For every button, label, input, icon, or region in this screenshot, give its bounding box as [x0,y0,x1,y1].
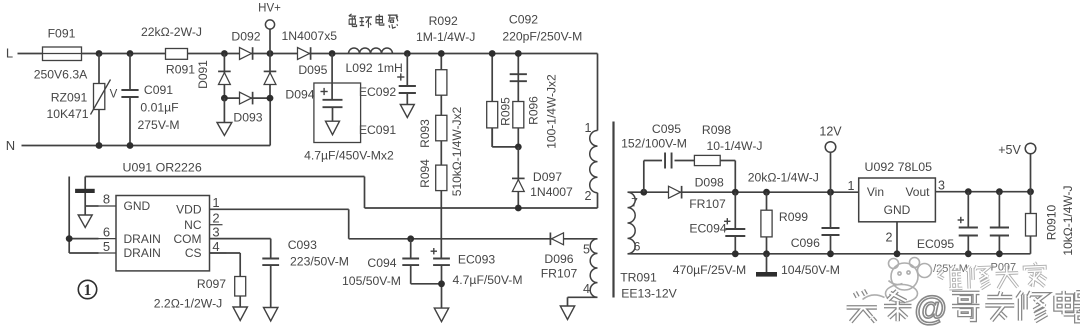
svg-text:GND: GND [884,203,911,217]
svg-text:4: 4 [212,239,219,254]
wire pin8 to ground stem [85,205,98,207]
svg-text:152/100V-M: 152/100V-M [621,137,687,151]
svg-text:275V-M: 275V-M [137,118,179,132]
node junction rail/C096 [827,250,834,257]
wire drain bus vertical [69,177,98,254]
watermark weixiudajia [938,262,1047,291]
label R097 [197,277,226,291]
wire pin1 VDD net [210,209,598,239]
resistor R097 [235,277,246,297]
svg-text:104/50V-M: 104/50V-M [781,263,840,277]
node junction rail/C092 [515,50,522,57]
inductor L092 1mH [349,48,393,54]
ground primary bus bar (thick) [75,189,95,193]
pin number 5 (TR091) [583,242,590,256]
value 10kOhm-1/4W-J (R0910) [1061,185,1075,255]
svg-text:C094: C094 [367,256,396,270]
value 1M-1/4W-J [416,30,475,44]
label D098 [695,175,724,189]
pin COM text [174,232,202,246]
node junction out/R0910 [1027,188,1034,195]
wire secondary 12V line [628,191,859,193]
label 1mH [377,61,403,75]
pin GND text [124,199,151,213]
svg-text:3: 3 [938,178,945,192]
capacitor C096 [822,192,840,254]
node junction pin7/C095 [640,189,647,196]
terminal HV+ [265,20,274,54]
value 1N4007 [530,185,573,199]
node junction rail/EC092 [404,50,411,57]
node junction drain pins [66,235,73,242]
label sehuandiangan (color-ring inductor) [349,14,398,28]
capacitor EC094 [724,192,745,254]
label EC093 [458,253,495,267]
diode D091 [218,54,231,99]
transformer core [612,122,614,298]
node junction D091/D093/ground [221,95,228,102]
label TR091 [620,270,657,284]
value 223/50V-M [290,255,349,269]
pin number 1 [210,195,227,210]
ground TR091 pin4 [560,306,574,320]
svg-text:20kΩ-1/4W-J: 20kΩ-1/4W-J [748,171,819,185]
resistor R099 [761,192,772,254]
value 4.7uF/50V-M [452,273,522,287]
ground primary (bridge) [217,98,232,135]
transformer TR091 secondary winding 7-6 [628,192,636,254]
svg-text:6: 6 [634,239,641,253]
svg-text:U092 78L05: U092 78L05 [865,160,933,174]
svg-text:4: 4 [583,282,590,296]
wire secondary ground rail [628,253,1031,255]
label D094 [285,87,314,101]
svg-text:EC092: EC092 [359,85,396,99]
wire 5V output line [935,191,1030,193]
label D096 [544,252,573,266]
value 105/50V-M [342,274,401,288]
pin Vout text [905,185,930,199]
svg-text:1: 1 [212,195,219,210]
node junction VDD/C094 [407,235,414,242]
watermark toutiao handle [847,290,1080,327]
svg-text:D097: D097 [533,170,562,184]
svg-text:R0910: R0910 [1045,205,1059,241]
label C095 [652,122,681,136]
svg-text:DRAIN: DRAIN [124,232,161,246]
wire pin2 NC stub [210,224,223,226]
capacitor C094 [402,239,419,284]
node junction rail/EC091 [329,50,336,57]
resistor R092 1M [436,70,447,96]
svg-text:R097: R097 [197,277,226,291]
label EC091 [359,123,396,137]
svg-text:EC093: EC093 [458,253,495,267]
label C094 [367,256,396,270]
value 250V6.3A [34,67,88,81]
fuse F091 [43,47,82,61]
svg-text:0.01µF: 0.01µF [140,101,178,115]
svg-text:EE13-12V: EE13-12V [621,286,677,300]
node junction rail/EC095 [965,250,972,257]
pin DRAIN5 text [124,246,161,260]
resistor R095 [487,54,498,147]
svg-text:COM: COM [174,232,202,246]
node junction R098/EC094 [732,189,739,196]
svg-text:R099: R099 [779,210,808,224]
node junction drain-line/D097 [515,205,522,212]
svg-text:NC: NC [184,218,202,232]
svg-text:R094: R094 [418,159,432,188]
wire top rail (L line) [18,53,598,55]
svg-text:220pF/250V-M: 220pF/250V-M [502,30,582,44]
pin number 6 [99,225,117,240]
wire pin4 CS to R097 [210,253,241,277]
node junction ground join [438,280,445,287]
svg-text:GND: GND [124,199,151,213]
svg-text:2: 2 [886,230,893,244]
capacitor C097 [990,192,1009,254]
node junction top rail / RZ091 [96,50,103,57]
svg-text:FR107: FR107 [541,266,578,280]
svg-text:@: @ [915,290,947,327]
label R095 [499,97,513,126]
svg-text:+5V: +5V [998,143,1021,157]
pin number 3 [210,225,227,240]
label C093 [288,238,317,252]
value 100-1/4W-Jx2 [545,74,559,149]
node junction line/12V [827,189,834,196]
diode D097 [512,147,525,208]
resistor R098 [694,155,720,165]
label EC095 [917,237,954,251]
wire startup chain [440,54,442,259]
pin number 8 [99,192,117,207]
terminal +5V [1025,143,1036,192]
label R093 [418,119,432,148]
node junction rail/R092 [438,50,445,57]
pin GND text (U092) [884,203,911,217]
svg-text:1: 1 [84,282,92,299]
label EC094 [689,221,726,235]
label R096 [527,96,541,125]
resistor R096 [513,102,524,128]
label R092 [429,14,458,28]
svg-text:V: V [110,89,118,101]
label EC092 [359,85,396,99]
svg-text:1: 1 [585,121,592,135]
label R091 [166,62,195,76]
svg-text:C093: C093 [288,238,317,252]
ground R097 [233,307,247,321]
pin number 2 [212,211,219,226]
node L (mains live input label) [6,46,13,61]
pin number 1 (TR091) [585,121,592,135]
svg-text:L: L [6,46,13,61]
svg-text:D093: D093 [233,110,262,124]
svg-text:D092: D092 [231,29,260,43]
ground EC093 [434,308,448,322]
svg-text:HV+: HV+ [258,3,281,15]
label R098 [702,123,731,137]
pin number 5 [99,239,117,254]
value 104/50V-M [781,263,840,277]
pin number 3 (U092) [938,178,945,192]
svg-text:D091: D091 [196,60,210,89]
node junction snubber/D097 [515,144,522,151]
capacitor EC095 [958,192,978,254]
svg-text:DRAIN: DRAIN [124,246,161,260]
pin CS text [185,246,202,260]
pin number 4 (TR091) [583,282,590,296]
capacitor EC092 [397,54,416,118]
value 510kOhm-1/4W-Jx2 [450,106,464,196]
transformer TR091 winding 5-4 [590,239,597,297]
svg-text:EC094: EC094 [689,221,726,235]
node junction out/EC095 [965,188,972,195]
svg-text:5: 5 [583,242,590,256]
capacitor C095 [665,153,672,169]
svg-text:1N4007: 1N4007 [530,185,573,199]
svg-text:D095: D095 [298,63,327,77]
label D092 [231,29,260,43]
op-amp U091 OR2226 (switcher IC box) [116,196,210,271]
capacitor C093 [262,259,279,308]
label C096 [791,236,820,250]
svg-text:10kΩ-1/4W-J: 10kΩ-1/4W-J [1061,185,1075,255]
svg-text:R091: R091 [166,62,195,76]
pin number 6 (TR091) [634,239,641,253]
value 2.2Ohm-1/2W-J [154,296,223,310]
value 152/100V-M [621,137,687,151]
wire C095-R098 snubber branch [644,161,736,193]
svg-text:Vout: Vout [905,185,930,199]
label +5V [998,143,1021,157]
pin NC text [184,218,202,232]
svg-text:EC091: EC091 [359,123,396,137]
label U091 OR2226 [123,160,202,174]
value 220pF/250V-M [502,30,582,44]
svg-text:R098: R098 [702,123,731,137]
wire drain net to transformer pin2 [85,177,597,209]
svg-text:6: 6 [103,225,110,240]
label 1N4007x5 [282,29,338,43]
wire snubber bottom join [492,128,518,147]
svg-text:5: 5 [103,239,110,254]
svg-text:12V: 12V [819,124,842,138]
pin DRAIN6 text [124,232,161,246]
resistor R094 [436,165,447,191]
capacitor EC093 [431,248,450,284]
label RZ091 [51,90,88,104]
svg-text:D098: D098 [695,175,724,189]
svg-text:F091: F091 [48,26,76,40]
ground secondary (bar) [756,254,777,277]
transformer TR091 primary winding 1-2 [590,54,598,209]
svg-text:1mH: 1mH [377,61,403,75]
label D091 [196,60,210,89]
value EE13-12V [621,286,677,300]
svg-text:EC095: EC095 [917,237,954,251]
node junction rail/U092gnd [894,250,901,257]
resistor R093 [436,115,447,141]
pin Vin text [867,185,884,199]
node junction line/R099 [763,189,770,196]
svg-text:FR107: FR107 [689,197,726,211]
node junction out/C097 [996,188,1003,195]
svg-text:RZ091: RZ091 [51,90,88,104]
node junction rail/EC094 [732,250,739,257]
node junction D093/D094/N [267,95,274,102]
node junction rail/D091 [221,50,228,57]
resistor R091 22k 2W [166,49,188,60]
node junction rail/C097 [996,250,1003,257]
op-amp U092 78L05 (regulator box) [859,178,936,222]
diode D096 [550,233,563,246]
svg-text:D096: D096 [544,252,573,266]
value 0.01uF [140,101,178,115]
svg-text:2: 2 [212,211,219,226]
svg-text:CS: CS [185,246,202,260]
diode D098 [669,186,682,199]
label F091 [48,26,76,40]
svg-text:U091 OR2226: U091 OR2226 [123,160,202,174]
wire pin4 to ground [568,297,598,306]
svg-text:470µF/25V-M: 470µF/25V-M [673,263,746,277]
pin number 1 (U092) [848,179,855,193]
svg-text:TR091: TR091 [620,270,657,284]
value 25V-M partial (under watermark) [933,263,968,275]
svg-text:4.7µF/450V-Mx2: 4.7µF/450V-Mx2 [304,148,394,162]
watermark doodle figure [863,258,932,303]
value FR107 [541,266,578,280]
svg-text:8: 8 [103,192,110,207]
diode D095 [298,47,311,60]
node junction rail/R099 [763,250,770,257]
svg-text:10-1/4W-J: 10-1/4W-J [707,139,763,153]
svg-text:R092: R092 [429,14,458,28]
varistor RZ091 [91,54,118,146]
svg-text:Vin: Vin [867,185,884,199]
value 4.7uF/450V-Mx2 [304,148,394,162]
svg-text:D094: D094 [285,87,314,101]
svg-text:3: 3 [212,225,219,240]
wire pin3 COM to C093 [210,239,271,259]
wire N line [22,98,271,145]
pin VDD text [176,203,202,217]
label D095 [298,63,327,77]
wire C094-EC093 ground join [411,284,442,308]
svg-text:1N4007x5: 1N4007x5 [282,29,338,43]
svg-text:R096: R096 [527,96,541,125]
svg-text:7: 7 [631,195,638,209]
label 12V [819,124,842,138]
label 20kOhm-1/4W-J [748,171,819,185]
svg-text:R093: R093 [418,119,432,148]
svg-text:100-1/4W-Jx2: 100-1/4W-Jx2 [545,74,559,149]
node junction rail/R095 [489,50,496,57]
svg-text:510kΩ-1/4W-Jx2: 510kΩ-1/4W-Jx2 [450,106,464,196]
wire bridge lower node [224,97,270,99]
pin number 4 [210,239,227,254]
node junction N/C091 [127,142,134,149]
svg-text:VDD: VDD [176,203,202,217]
node junction N/RZ091 [96,142,103,149]
capacitor EC091 (boxed) [314,54,361,143]
label D097 [533,170,562,184]
value 470uF/25V-M [673,263,746,277]
wire R097 to ground [239,296,241,307]
pin number 7 (TR091) [631,195,638,209]
diode D094 [264,54,277,99]
svg-text:4.7µF/50V-M: 4.7µF/50V-M [452,273,522,287]
label C092 [509,13,538,27]
value 275V-M [137,118,179,132]
terminal 12V [825,142,836,193]
capacitor C092 [510,54,527,102]
svg-text:C092: C092 [509,13,538,27]
svg-text:22kΩ-2W-J: 22kΩ-2W-J [141,25,202,39]
resistor R0910 [1026,192,1037,254]
label 22kOhm-2W-J [141,25,202,39]
label L092 [346,61,373,75]
page marker circled 1 [78,280,96,299]
value 10-1/4W-J [707,139,763,153]
label R099 [779,210,808,224]
diode D092 [240,47,253,60]
svg-text:223/50V-M: 223/50V-M [290,255,349,269]
label C091 [144,83,173,97]
ground C093 [264,308,278,322]
label U092 78L05 [865,160,933,174]
ground primary (IC) [78,215,92,228]
svg-text:2.2Ω-1/2W-J: 2.2Ω-1/2W-J [154,296,223,310]
label R0910 [1045,205,1059,241]
svg-text:105/50V-M: 105/50V-M [342,274,401,288]
svg-text:R095: R095 [499,97,513,126]
diode D093 [240,92,253,105]
svg-text:1: 1 [848,179,855,193]
node N (mains neutral input label) [6,138,15,153]
svg-text:2: 2 [585,189,592,203]
svg-text:L092: L092 [346,61,373,75]
wire U092 GND pin2 [896,222,898,254]
label R094 [418,159,432,188]
pin number 2 (TR091) [585,189,592,203]
value P097 partial (under watermark) [987,261,1016,273]
label D093 [233,110,262,124]
node junction top rail / C091 [127,50,134,57]
svg-text:10K471: 10K471 [46,107,88,121]
svg-text:C096: C096 [791,236,820,250]
capacitor C091 [121,54,138,146]
wire pin6 stub [69,238,98,240]
wire GND stem vertical [84,177,86,216]
svg-text:1M-1/4W-J: 1M-1/4W-J [416,30,475,44]
svg-text:N: N [6,138,15,153]
svg-text:C091: C091 [144,83,173,97]
svg-text:250V6.3A: 250V6.3A [34,67,88,81]
pin number 2 (U092) [886,230,893,244]
label HV+ [258,3,281,15]
value FR107 (D098) [689,197,726,211]
node junction rail/HV+/D094 [267,50,274,57]
value 10K471 [46,107,88,121]
svg-text:C095: C095 [652,122,681,136]
